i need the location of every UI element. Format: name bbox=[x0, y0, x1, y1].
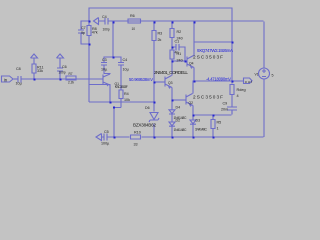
svg-text:R5: R5 bbox=[217, 121, 222, 125]
capacitor C5 bbox=[104, 134, 107, 141]
capacitor C8 bbox=[18, 76, 21, 83]
transistor Q4 bbox=[187, 22, 194, 81]
svg-text:out: out bbox=[245, 80, 252, 84]
svg-text:10µ: 10µ bbox=[101, 68, 108, 72]
wire feedback top rail bbox=[89, 8, 233, 42]
capacitor C2 bbox=[118, 57, 124, 91]
resistor R5 bbox=[211, 115, 215, 137]
emitter arrow Q2 bbox=[189, 104, 192, 107]
svg-text:5: 5 bbox=[272, 74, 274, 78]
svg-text:C4: C4 bbox=[102, 15, 107, 19]
svg-text:2N5401_CORDELL: 2N5401_CORDELL bbox=[154, 70, 188, 75]
diode D2 bbox=[169, 122, 175, 137]
wire out node bbox=[194, 42, 244, 84]
svg-text:240: 240 bbox=[177, 59, 183, 63]
svg-text:33k: 33k bbox=[37, 69, 43, 73]
capacitor C7 bbox=[78, 30, 84, 33]
capacitor C4 series bbox=[105, 18, 108, 25]
ground flag left y22 bbox=[94, 18, 103, 25]
svg-text:C7: C7 bbox=[81, 26, 86, 30]
svg-text:9XQ747W2.1926mA: 9XQ747W2.1926mA bbox=[197, 48, 233, 53]
svg-text:9p: 9p bbox=[81, 31, 85, 35]
svg-text:100µ: 100µ bbox=[101, 142, 110, 146]
svg-text:-4.4718090mV: -4.4718090mV bbox=[206, 77, 231, 82]
diode D3 bbox=[190, 115, 196, 137]
wire VAS collector jog bbox=[194, 41, 232, 43]
ground flag C6 bbox=[57, 54, 64, 62]
svg-text:50.969538mV: 50.969538mV bbox=[129, 77, 153, 82]
emitter arrow Q1 bbox=[106, 84, 109, 87]
svg-text:1: 1 bbox=[217, 127, 219, 131]
capacitor C3 bbox=[101, 57, 111, 74]
resistor R7 bbox=[66, 76, 76, 80]
wire Q3 base bbox=[154, 81, 165, 83]
wire feedback to emitter bbox=[90, 84, 111, 86]
svg-text:R7: R7 bbox=[69, 72, 73, 76]
resistor R10 bbox=[131, 135, 141, 139]
ground flag bottom left bbox=[96, 134, 104, 141]
svg-text:2.2k: 2.2k bbox=[68, 81, 74, 85]
resistor R1 bbox=[170, 50, 174, 62]
svg-text:D3: D3 bbox=[196, 119, 201, 123]
svg-text:R2: R2 bbox=[177, 30, 182, 34]
wire VAS base bbox=[172, 60, 187, 62]
svg-text:1N4148C: 1N4148C bbox=[174, 128, 188, 132]
resistor Rdeg bbox=[230, 85, 234, 107]
svg-text:Q4: Q4 bbox=[189, 62, 194, 66]
resistor R8 bbox=[87, 21, 91, 44]
svg-text:10k: 10k bbox=[124, 98, 130, 102]
svg-text:C8: C8 bbox=[16, 67, 21, 71]
wire in bbox=[14, 78, 18, 80]
emitter arrow Q4 bbox=[190, 66, 193, 69]
wire supply rail y22 bbox=[81, 21, 265, 68]
resistor R6 bbox=[128, 19, 141, 23]
capacitor C6 bbox=[57, 62, 63, 79]
svg-text:D6: D6 bbox=[145, 106, 150, 110]
svg-text:4: 4 bbox=[237, 94, 239, 98]
svg-text:KSC3503F: KSC3503F bbox=[115, 85, 128, 89]
wire emitter tap bbox=[89, 101, 154, 103]
zener D6 bbox=[149, 113, 159, 123]
port out bbox=[244, 78, 253, 84]
svg-text:Rdeg: Rdeg bbox=[237, 88, 246, 92]
svg-text:V1: V1 bbox=[255, 73, 259, 77]
resistor R2 bbox=[170, 22, 174, 50]
svg-text:Q2: Q2 bbox=[189, 101, 194, 105]
svg-text:D4: D4 bbox=[176, 106, 181, 110]
emitter arrow Q3 bbox=[168, 86, 171, 89]
svg-text:10µ: 10µ bbox=[123, 68, 130, 72]
transistor Q1 bbox=[103, 74, 110, 103]
svg-text:Q3: Q3 bbox=[168, 81, 173, 85]
svg-text:C3: C3 bbox=[102, 58, 107, 62]
svg-text:R10: R10 bbox=[134, 131, 141, 135]
wire x113 comp drop bbox=[112, 22, 114, 57]
voltage source V1 bbox=[259, 68, 270, 79]
resistor R3 bbox=[152, 22, 156, 41]
svg-text:R6: R6 bbox=[130, 14, 135, 18]
wire zener column bbox=[153, 41, 155, 137]
diode D4 bbox=[169, 100, 175, 123]
wire Q2 base bbox=[172, 99, 186, 101]
svg-text:100p: 100p bbox=[103, 28, 110, 32]
svg-text:C9: C9 bbox=[223, 102, 228, 106]
capacitor C1 bbox=[172, 44, 186, 62]
svg-text:10µ: 10µ bbox=[16, 82, 23, 86]
svg-text:C6: C6 bbox=[62, 65, 67, 69]
wire input node bbox=[21, 78, 103, 80]
capacitor C9 bbox=[227, 107, 237, 115]
wire ground rail bbox=[107, 136, 264, 139]
resistor R4 bbox=[119, 90, 123, 108]
svg-text:R1: R1 bbox=[177, 52, 182, 56]
svg-text:47k: 47k bbox=[92, 31, 98, 35]
port in bbox=[2, 76, 14, 82]
svg-text:R3: R3 bbox=[158, 32, 163, 36]
wire Q2 emitter bus bbox=[193, 111, 233, 116]
transistor Q2 bbox=[186, 81, 193, 115]
wire cap top bus bbox=[104, 56, 121, 58]
svg-text:1N4148C: 1N4148C bbox=[195, 128, 208, 132]
wire C7 branch bbox=[81, 21, 90, 103]
transistor Q3 bbox=[165, 61, 172, 100]
svg-text:C1: C1 bbox=[175, 40, 180, 44]
svg-text:33: 33 bbox=[134, 143, 138, 147]
svg-text:R4: R4 bbox=[124, 92, 129, 96]
svg-text:D2: D2 bbox=[176, 118, 181, 122]
svg-text:BZX384B62: BZX384B62 bbox=[133, 123, 156, 128]
svg-text:2k: 2k bbox=[158, 38, 162, 42]
resistor R11 bbox=[32, 60, 36, 79]
svg-text:C4: C4 bbox=[123, 58, 128, 62]
svg-text:100p: 100p bbox=[59, 71, 66, 75]
ground flag R11 bbox=[31, 54, 38, 60]
svg-text:20m: 20m bbox=[221, 108, 228, 112]
wire emitter bottom bbox=[114, 108, 121, 137]
svg-text:10: 10 bbox=[132, 27, 136, 31]
svg-text:C5: C5 bbox=[104, 130, 109, 134]
